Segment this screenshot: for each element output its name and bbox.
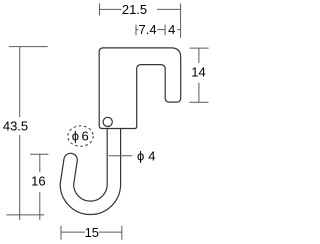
dimension lines 16: [30, 154, 48, 220]
dashed balloon and label phi6: [68, 126, 93, 146]
svg-text:4: 4: [168, 22, 175, 37]
dimension lines 43.5: [6, 47, 47, 220]
svg-text:ϕ4: ϕ4: [137, 148, 160, 163]
svg-text:16: 16: [31, 174, 45, 189]
wire stem and J-hook outline (outer): [67, 129, 114, 208]
leader line for phi4: [109, 155, 133, 157]
mounting hole: [103, 117, 112, 126]
wire stem and J-hook interior (white): [67, 129, 114, 208]
svg-text:14: 14: [191, 64, 205, 79]
svg-text:21.5: 21.5: [122, 2, 147, 17]
svg-text:43.5: 43.5: [3, 118, 28, 133]
svg-text:ϕ6: ϕ6: [72, 128, 92, 143]
dimension lines 15: [61, 226, 122, 240]
svg-text:7.4: 7.4: [139, 22, 157, 37]
svg-text:15: 15: [85, 225, 99, 240]
dimension lines 14: [190, 48, 209, 102]
dimension lines 21.5: [100, 3, 181, 37]
dimension lines 7.4 and 4: [136, 25, 180, 36]
hook head body outline with slot and finger: [99, 48, 181, 129]
